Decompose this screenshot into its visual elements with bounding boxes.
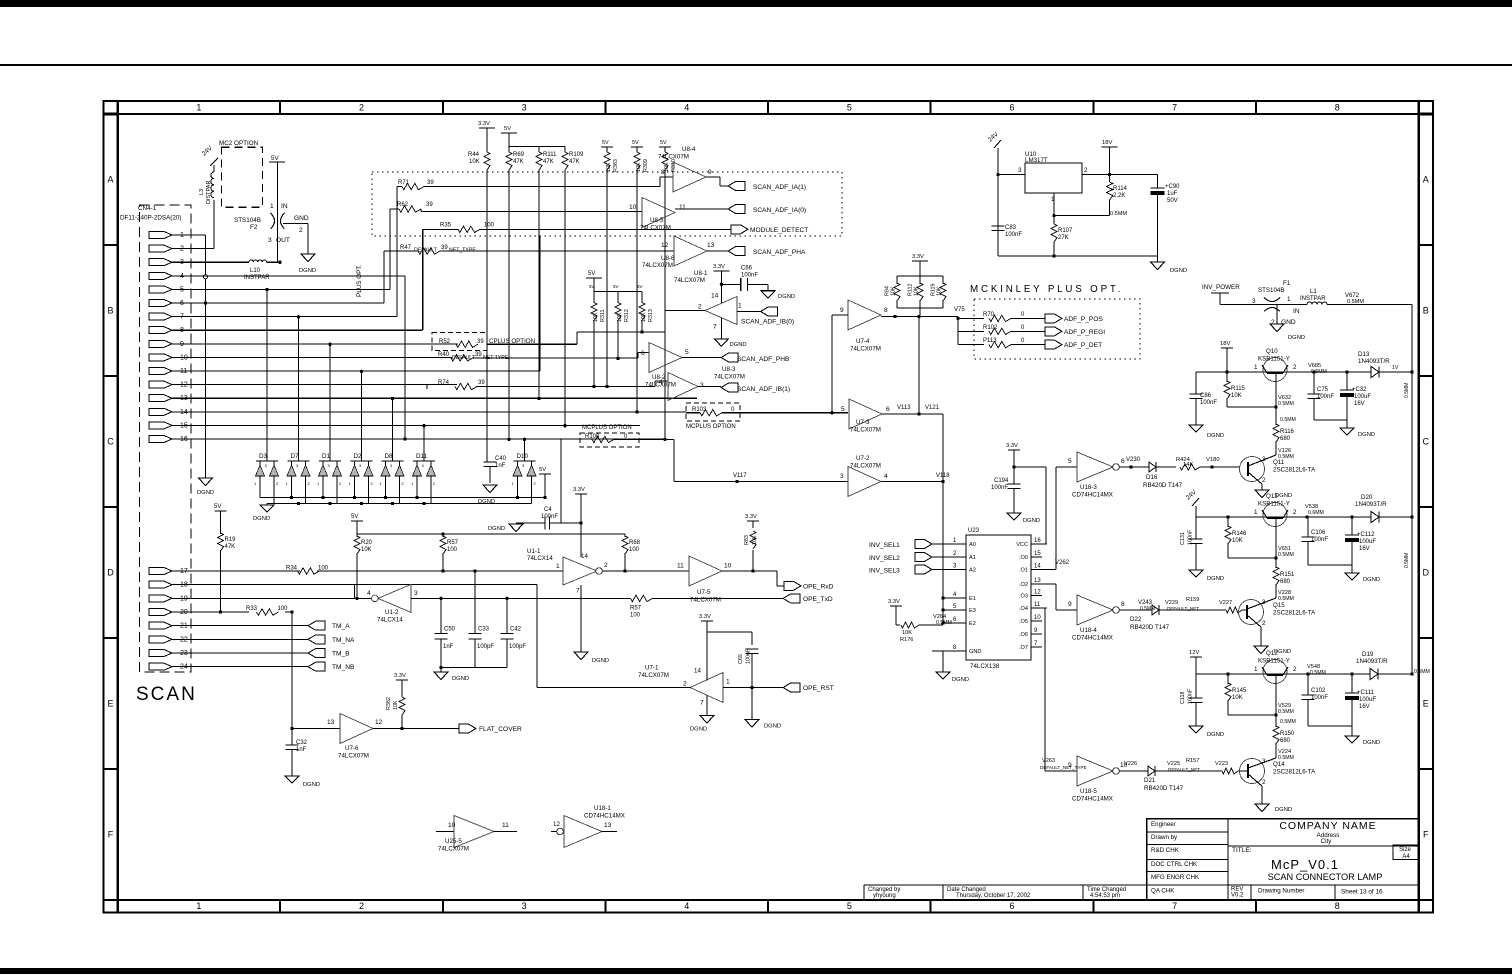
wire pin11 xyxy=(176,370,540,372)
svg-text:C83: C83 xyxy=(1005,225,1017,231)
svg-text:5V: 5V xyxy=(504,126,511,132)
svg-text:0.5MM: 0.5MM xyxy=(1140,606,1155,612)
svg-text:4: 4 xyxy=(367,590,371,597)
svg-text:CN4-1: CN4-1 xyxy=(138,205,157,212)
svg-text:100: 100 xyxy=(484,223,495,229)
DGND at C65 xyxy=(751,688,753,720)
5V rail lower xyxy=(351,520,363,522)
svg-text:100: 100 xyxy=(447,547,458,553)
svg-text:E3: E3 xyxy=(969,608,976,614)
svg-text:A: A xyxy=(1423,174,1429,184)
svg-text:MCPLUS OPTION: MCPLUS OPTION xyxy=(686,424,736,430)
svg-text:D8: D8 xyxy=(385,453,394,460)
5V power R309 xyxy=(631,146,643,148)
svg-text:12: 12 xyxy=(375,719,383,726)
resistor R57 100 vertical xyxy=(442,534,444,537)
resistor R20 10K xyxy=(356,534,358,537)
svg-text:14: 14 xyxy=(1034,564,1041,570)
svg-text:18V: 18V xyxy=(1220,341,1230,347)
U1-1 pin7 DGND xyxy=(580,585,582,652)
DGND at C75 xyxy=(1340,428,1354,435)
U23 pin 8 GND xyxy=(932,650,966,652)
TM_NA flag xyxy=(308,635,325,644)
svg-text:10: 10 xyxy=(448,822,456,829)
svg-text:11: 11 xyxy=(677,563,684,570)
svg-text:74LCX07M: 74LCX07M xyxy=(674,277,705,284)
svg-text:A1: A1 xyxy=(969,555,976,561)
wire pin4 riser xyxy=(176,275,405,277)
resistor R116 680 xyxy=(1273,424,1279,442)
svg-text:100nF: 100nF xyxy=(1200,400,1217,406)
12V power Q12 xyxy=(1190,656,1202,658)
U23 pin 6 E2 xyxy=(943,622,966,624)
svg-text:4:54:53 pm: 4:54:53 pm xyxy=(1090,893,1120,899)
svg-text:R20: R20 xyxy=(361,540,373,546)
svg-text:E1: E1 xyxy=(969,596,976,602)
resistor R33 100 row pin20 xyxy=(176,611,249,613)
resistor R146 10K xyxy=(1227,517,1229,527)
svg-text:Drawn by: Drawn by xyxy=(1151,834,1178,841)
svg-text:10: 10 xyxy=(1034,615,1041,621)
svg-text:R57: R57 xyxy=(630,606,642,612)
svg-text:15: 15 xyxy=(1034,551,1041,557)
svg-text:3: 3 xyxy=(1252,298,1256,305)
svg-text:DEFAULT_NET_TYPE: DEFAULT_NET_TYPE xyxy=(1040,765,1087,770)
svg-text:8: 8 xyxy=(1335,901,1340,911)
svg-text:C66: C66 xyxy=(741,266,753,272)
svg-text:100pF: 100pF xyxy=(509,644,526,650)
resistor R83 10K xyxy=(752,521,754,528)
svg-text:D3: D3 xyxy=(259,453,268,460)
svg-text:C75: C75 xyxy=(1317,387,1329,393)
svg-text:100nF: 100nF xyxy=(1188,688,1194,704)
svg-text:2: 2 xyxy=(299,227,303,234)
svg-text:3.3V: 3.3V xyxy=(745,514,757,520)
fuse F1 STS104B xyxy=(1220,304,1307,306)
wire U7-5 out corner xyxy=(776,571,778,586)
capacitor C65 100nF xyxy=(751,632,753,645)
svg-text:F: F xyxy=(1423,829,1429,839)
svg-text:0.5MM: 0.5MM xyxy=(1404,553,1410,568)
svg-text:39: 39 xyxy=(477,339,484,345)
svg-text:4: 4 xyxy=(684,103,689,113)
wire pin14 / R103 row xyxy=(176,411,686,413)
svg-text:100nF: 100nF xyxy=(1188,529,1194,545)
capacitor C83 100nF xyxy=(997,175,999,226)
svg-text:Size: Size xyxy=(1399,847,1411,853)
svg-text:39: 39 xyxy=(427,180,434,186)
svg-text:13: 13 xyxy=(604,822,612,829)
18V power xyxy=(1102,146,1118,148)
F1 GND stem DGND xyxy=(1276,305,1278,325)
3.3V power R176 xyxy=(890,605,902,607)
svg-text:8: 8 xyxy=(884,307,888,314)
svg-text:100nF: 100nF xyxy=(541,514,558,520)
svg-text:R311: R311 xyxy=(600,310,606,323)
Q15 emitter DGND xyxy=(1260,627,1262,646)
svg-text:LM317T: LM317T xyxy=(1025,157,1048,164)
svg-text:RB420D T147: RB420D T147 xyxy=(1143,482,1183,489)
5V power R383 xyxy=(601,146,613,148)
transistor Q15 2SC2812L6-TA xyxy=(1239,600,1264,625)
svg-text:C33: C33 xyxy=(478,627,490,633)
svg-text:680: 680 xyxy=(1280,436,1291,442)
svg-text:R47: R47 xyxy=(400,245,412,251)
capacitor C32 1nF xyxy=(286,744,299,746)
svg-text:2: 2 xyxy=(359,103,364,113)
svg-text:100: 100 xyxy=(629,547,640,553)
svg-text:4: 4 xyxy=(659,379,663,386)
svg-text:74LCX07M: 74LCX07M xyxy=(338,753,369,760)
svg-text:Engineer: Engineer xyxy=(1151,821,1176,828)
DGND at C106 xyxy=(1345,573,1359,580)
svg-text:47K: 47K xyxy=(569,159,580,165)
svg-text:0.5MM: 0.5MM xyxy=(1278,709,1294,715)
svg-text:3: 3 xyxy=(700,382,704,389)
capacitor C112 100uF xyxy=(1351,517,1353,535)
svg-text:680: 680 xyxy=(1280,579,1291,585)
connector pin 12 xyxy=(149,381,172,388)
svg-text:SCAN_ADF_IB(1): SCAN_ADF_IB(1) xyxy=(737,386,790,393)
inverter U1-1 74LCX14 xyxy=(563,557,597,585)
svg-text:74LCX07M: 74LCX07M xyxy=(690,597,721,604)
inverter U18-5 CD74HC14MX xyxy=(1077,756,1113,786)
resistor R44 10K xyxy=(486,128,488,152)
svg-text:CD74HC14MX: CD74HC14MX xyxy=(1072,635,1113,642)
svg-text:McP_V0.1: McP_V0.1 xyxy=(1271,857,1339,872)
rail 47K bank xyxy=(508,133,510,147)
decoder U23 74LCX138 xyxy=(966,535,1031,660)
SCAN_ADF_IB(0) flag xyxy=(761,307,778,316)
svg-text:U23: U23 xyxy=(968,528,980,534)
resistor R62 39 xyxy=(390,208,399,210)
svg-text:10K: 10K xyxy=(1231,393,1242,399)
connector CN4-1 outline xyxy=(140,205,192,672)
svg-text:INV_SEL2: INV_SEL2 xyxy=(869,555,900,562)
SCAN_ADF_IB(1) flag xyxy=(721,383,738,392)
svg-text:R382: R382 xyxy=(386,697,392,710)
svg-text:L10: L10 xyxy=(250,268,261,274)
capacitor C90 1uF 50V xyxy=(1157,175,1159,188)
svg-text:1: 1 xyxy=(1254,666,1258,673)
svg-text:D13: D13 xyxy=(1358,351,1370,358)
svg-text:yhyoung: yhyoung xyxy=(873,893,896,899)
svg-text:A4: A4 xyxy=(1402,854,1410,860)
Q12 rail xyxy=(1196,673,1370,675)
svg-text:D: D xyxy=(107,567,114,577)
svg-text:100nF: 100nF xyxy=(1005,232,1022,238)
svg-text:DGND: DGND xyxy=(730,342,747,348)
svg-text:74LCX07M: 74LCX07M xyxy=(638,672,669,679)
svg-text:74LCX14: 74LCX14 xyxy=(527,555,553,562)
U7-4 output wire xyxy=(881,316,958,318)
svg-text:3: 3 xyxy=(414,590,418,597)
connector pin 6 xyxy=(149,300,172,307)
svg-text:V0.2: V0.2 xyxy=(1231,893,1244,899)
wire VCC riser xyxy=(1014,466,1046,468)
svg-text:74LCX07M: 74LCX07M xyxy=(640,225,671,232)
U7-4 input riser xyxy=(831,315,833,413)
connector pin 1 xyxy=(149,232,172,239)
svg-text:5: 5 xyxy=(1068,458,1072,465)
svg-text:D11: D11 xyxy=(416,453,428,460)
svg-text:0.5MM: 0.5MM xyxy=(1404,383,1410,398)
svg-text:NET_TYPE: NET_TYPE xyxy=(449,248,476,254)
dual diode D1 xyxy=(319,460,341,462)
svg-text:D20: D20 xyxy=(1361,494,1373,501)
svg-text:0.5MM: 0.5MM xyxy=(1278,596,1294,602)
buffer U25-5 74LCX07M xyxy=(436,831,454,833)
svg-text:DGND: DGND xyxy=(299,268,316,274)
svg-text:SCAN_ADF_PHA: SCAN_ADF_PHA xyxy=(753,249,806,256)
svg-text:1nF: 1nF xyxy=(443,644,454,650)
svg-text:2SC2812L6-TA: 2SC2812L6-TA xyxy=(1273,769,1316,776)
svg-text:DEFAULT_NET: DEFAULT_NET xyxy=(1168,767,1200,772)
svg-text:QA CHK: QA CHK xyxy=(1151,888,1175,895)
svg-text:.O7: .O7 xyxy=(1019,645,1028,651)
TM_A flag xyxy=(308,621,325,630)
svg-text:5: 5 xyxy=(685,349,689,356)
svg-text:COMPANY NAME: COMPANY NAME xyxy=(1279,820,1376,832)
svg-text:R71: R71 xyxy=(398,180,410,186)
svg-text:U7-3: U7-3 xyxy=(856,419,870,426)
svg-text:100nF: 100nF xyxy=(741,273,758,279)
svg-text:E: E xyxy=(1423,698,1429,708)
wire F2 GND xyxy=(283,223,308,225)
svg-text:D16: D16 xyxy=(1146,474,1158,481)
svg-text:12: 12 xyxy=(1034,590,1041,596)
svg-text:100: 100 xyxy=(278,606,289,612)
capacitor C86 100nF xyxy=(1195,372,1197,394)
svg-text:U8-4: U8-4 xyxy=(682,146,696,153)
svg-text:3.3V: 3.3V xyxy=(573,487,585,493)
svg-text:RB420D T147: RB420D T147 xyxy=(1144,785,1184,792)
svg-text:U18-5: U18-5 xyxy=(1080,788,1097,795)
svg-text:6: 6 xyxy=(1010,901,1015,911)
wire pin12 / R74 row xyxy=(176,384,457,386)
svg-text:V226: V226 xyxy=(1124,761,1137,767)
svg-text:R102: R102 xyxy=(983,325,998,331)
svg-text:50V: 50V xyxy=(1167,198,1178,204)
svg-text:ADF_P_POS: ADF_P_POS xyxy=(1064,316,1103,323)
svg-text:2SC2812L6-TA: 2SC2812L6-TA xyxy=(1273,610,1316,617)
svg-text:V230: V230 xyxy=(1126,457,1141,463)
svg-text:74LCX07M: 74LCX07M xyxy=(658,154,689,161)
TM_NB flag xyxy=(308,662,325,671)
U23 GND DGND xyxy=(942,651,944,672)
svg-text:5V: 5V xyxy=(271,155,280,162)
DGND at C4 xyxy=(509,524,523,532)
svg-text:C118: C118 xyxy=(1180,692,1186,705)
svg-text:10K: 10K xyxy=(469,159,480,165)
transistor Q10 KSB1151-Y xyxy=(1263,358,1287,382)
svg-text:R150: R150 xyxy=(1280,731,1295,737)
resistor R111 47K xyxy=(538,147,540,153)
title block size box xyxy=(1393,845,1419,860)
svg-text:R313: R313 xyxy=(648,309,654,322)
svg-text:R109: R109 xyxy=(569,152,584,158)
svg-text:TM_NB: TM_NB xyxy=(332,664,355,671)
svg-text:7: 7 xyxy=(713,324,717,331)
svg-text:R57: R57 xyxy=(447,540,459,546)
title block changed-by bar xyxy=(864,884,1147,886)
svg-text:.O6: .O6 xyxy=(1019,632,1028,638)
wire R313 to U8-1 input xyxy=(577,331,665,333)
DGND at C118 xyxy=(1189,726,1203,733)
svg-text:U7-5: U7-5 xyxy=(697,589,711,596)
Q14 emitter DGND xyxy=(1261,786,1263,804)
svg-text:.O4: .O4 xyxy=(1019,606,1028,612)
svg-text:1: 1 xyxy=(1254,364,1258,371)
wire R115 to emitter xyxy=(1227,406,1276,408)
connector pin 14 xyxy=(149,408,172,415)
svg-text:R&D CHK: R&D CHK xyxy=(1151,847,1180,854)
svg-text:47K: 47K xyxy=(543,159,554,165)
svg-text:Q15: Q15 xyxy=(1273,602,1285,609)
U23 pin 2 A1 xyxy=(932,556,966,558)
svg-text:NET TYPE: NET TYPE xyxy=(483,355,509,361)
buffer U8-4 74LCX07M xyxy=(673,162,706,192)
svg-text:1: 1 xyxy=(738,303,742,310)
svg-text:100nF: 100nF xyxy=(1311,537,1328,543)
svg-text:0.5MM: 0.5MM xyxy=(1280,417,1296,423)
svg-text:DGND: DGND xyxy=(197,490,214,496)
svg-text:V223: V223 xyxy=(1215,761,1228,767)
dual diode D11 xyxy=(413,460,435,462)
cap gnd rail Q13 xyxy=(1308,564,1352,566)
svg-text:2: 2 xyxy=(1262,477,1266,484)
svg-text:TM_NA: TM_NA xyxy=(332,637,355,644)
svg-text:3.3V: 3.3V xyxy=(478,121,490,127)
svg-text:V117: V117 xyxy=(733,473,747,479)
3.3V power R83 xyxy=(747,520,759,522)
svg-text:CPLUS OPTION: CPLUS OPTION xyxy=(489,338,535,345)
3.3V power bank R84 xyxy=(912,260,928,262)
diode D21 RB420D T147 xyxy=(1148,766,1155,776)
svg-text:10K: 10K xyxy=(606,162,612,172)
svg-text:KSB1151-Y: KSB1151-Y xyxy=(1258,356,1290,363)
svg-text:U7-1: U7-1 xyxy=(645,665,659,672)
page top bar xyxy=(0,0,1512,7)
resistor R382 10K xyxy=(401,680,403,697)
diode D16 RB420D T147 xyxy=(1149,462,1156,472)
svg-text:10K: 10K xyxy=(914,286,920,296)
diode bus row lower xyxy=(267,503,532,505)
svg-text:0.6MM: 0.6MM xyxy=(1308,510,1324,516)
svg-text:74LCX14: 74LCX14 xyxy=(377,617,403,624)
connector pin 9 xyxy=(149,340,172,347)
svg-text:10K: 10K xyxy=(641,312,647,322)
svg-text:C: C xyxy=(107,436,114,446)
dual diode D10 xyxy=(514,460,536,462)
svg-text:5V: 5V xyxy=(589,284,596,289)
wire pin8 to R35 row xyxy=(176,329,423,331)
svg-text:V113: V113 xyxy=(897,405,911,411)
svg-text:R312: R312 xyxy=(624,309,630,322)
regulator ground rail xyxy=(998,255,1158,257)
svg-text:5: 5 xyxy=(847,103,852,113)
resistor R52 39 (CPLUS OPTION) xyxy=(432,333,487,351)
resistor R68 100 xyxy=(624,534,626,537)
svg-text:1V: 1V xyxy=(1392,365,1399,371)
resistor R102 0 xyxy=(958,330,984,332)
svg-text:9: 9 xyxy=(1068,601,1072,608)
dual diode D7 xyxy=(288,460,310,462)
resistor R19 47K xyxy=(220,511,222,534)
svg-text:0.5MM: 0.5MM xyxy=(1278,552,1294,558)
U7-2 output wire V118 xyxy=(881,481,943,483)
svg-text:DGND: DGND xyxy=(1023,518,1040,524)
svg-text:100nF: 100nF xyxy=(991,485,1008,491)
svg-text:74LCX07M: 74LCX07M xyxy=(714,374,745,381)
svg-text:680: 680 xyxy=(1280,738,1291,744)
svg-text:5V: 5V xyxy=(539,467,546,473)
svg-text:R115: R115 xyxy=(1231,386,1246,392)
svg-text:R70: R70 xyxy=(983,312,995,318)
Q13 rail xyxy=(1196,516,1371,518)
svg-text:OPE_RxD: OPE_RxD xyxy=(803,583,834,590)
drawing frame xyxy=(104,101,1434,913)
capacitor C106 100nF xyxy=(1307,517,1309,537)
svg-text:39: 39 xyxy=(478,380,485,386)
DGND at U10 xyxy=(1157,256,1159,262)
svg-text:5V: 5V xyxy=(602,140,609,146)
wire U1-1 to U7-5 xyxy=(602,570,689,572)
svg-text:F1: F1 xyxy=(1283,280,1291,287)
fuse F2 STS104B xyxy=(277,162,279,262)
svg-text:MFG ENGR CHK: MFG ENGR CHK xyxy=(1151,874,1200,881)
svg-text:1: 1 xyxy=(196,901,201,911)
svg-text:D2: D2 xyxy=(354,453,363,460)
wire .O1 riser to U18-3 xyxy=(1055,467,1057,570)
svg-text:1N4093T/R: 1N4093T/R xyxy=(1355,501,1387,508)
svg-text:R35: R35 xyxy=(440,223,452,229)
svg-text:R19: R19 xyxy=(225,537,237,543)
ground bus vertical xyxy=(205,235,207,478)
svg-text:100uF: 100uF xyxy=(1359,539,1376,545)
svg-text:10K: 10K xyxy=(617,312,623,322)
ADF_P_POS flag xyxy=(1045,314,1062,323)
dual diode D8 xyxy=(382,460,404,462)
svg-text:DGND: DGND xyxy=(1363,740,1380,746)
wire R146 to emitter xyxy=(1228,557,1276,559)
svg-text:C32: C32 xyxy=(296,740,308,746)
svg-text:10K: 10K xyxy=(902,630,912,636)
svg-text:74LCX07M: 74LCX07M xyxy=(642,262,673,269)
svg-text:12: 12 xyxy=(553,821,560,828)
capacitor C4 100nF xyxy=(550,522,582,524)
svg-text:A: A xyxy=(107,174,113,184)
svg-text:DEFAULT_NET: DEFAULT_NET xyxy=(1167,606,1199,611)
U23 pin 13 .O2 xyxy=(1031,583,1047,585)
buffer U8-1 74LCX07M (left) xyxy=(705,297,737,325)
svg-text:L1: L1 xyxy=(1310,289,1317,295)
svg-text:1: 1 xyxy=(1287,296,1291,303)
connector pin 17 xyxy=(149,568,172,575)
svg-text:C194: C194 xyxy=(994,478,1009,484)
svg-text:10K: 10K xyxy=(1232,538,1243,544)
svg-text:L3: L3 xyxy=(199,189,205,195)
svg-text:OUT: OUT xyxy=(276,237,290,244)
5V power D10 xyxy=(539,473,551,475)
svg-text:.O1: .O1 xyxy=(1019,568,1028,574)
svg-text:V263: V263 xyxy=(1042,758,1055,764)
wire U7-1 output xyxy=(537,687,691,689)
svg-text:KSB1151-Y: KSB1151-Y xyxy=(1258,501,1290,508)
svg-text:FLAT_COVER: FLAT_COVER xyxy=(479,726,522,733)
wire R114 to pin1 xyxy=(1054,215,1110,217)
svg-text:R157: R157 xyxy=(1186,758,1199,764)
